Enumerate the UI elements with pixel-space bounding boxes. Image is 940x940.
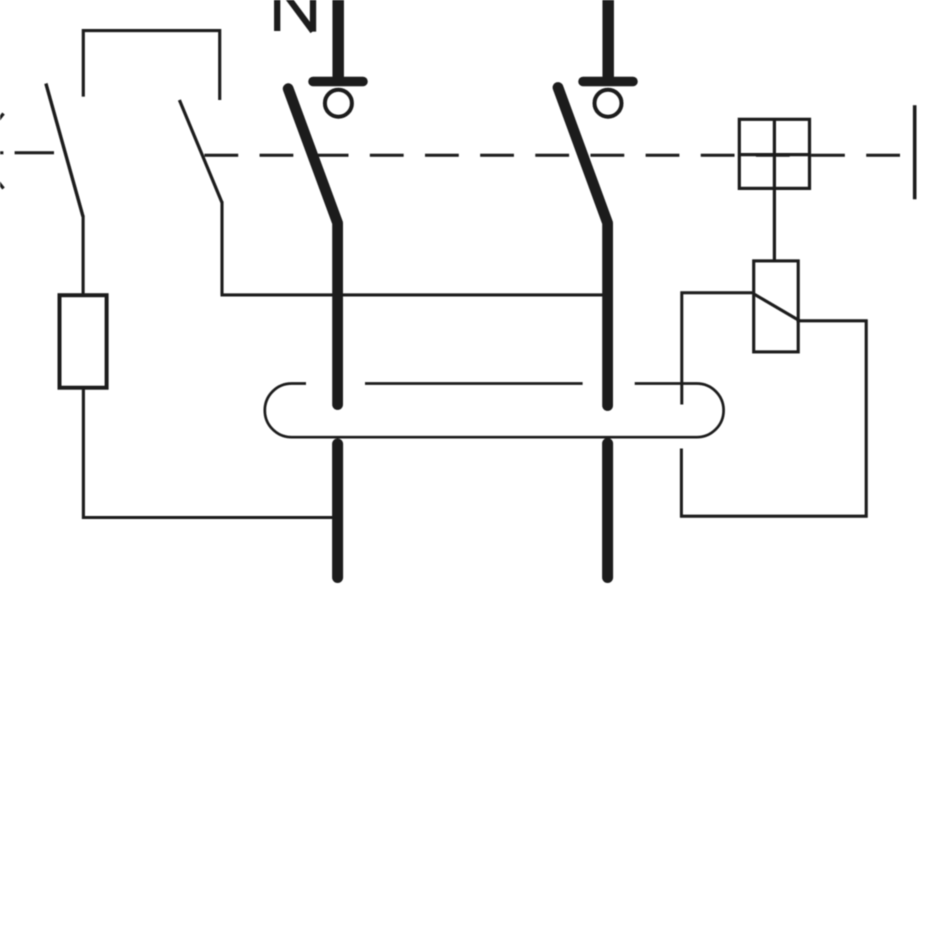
resistor (trip relay coil) xyxy=(60,295,107,388)
CT top edge middle segment xyxy=(365,382,583,385)
label N (neutral pole marking) xyxy=(277,0,313,32)
pole 2 conductor below CT xyxy=(602,444,613,578)
wire: resistor to pole 1 conductor xyxy=(83,388,334,518)
test button (square with cross) xyxy=(739,119,809,261)
moving contact blade + conductor, pole 1 xyxy=(288,89,337,405)
pole 1 conductor below CT xyxy=(332,444,343,578)
terminal lead, pole 1 (N) xyxy=(332,0,344,77)
wire: switch 1 to resistor xyxy=(82,216,85,296)
trip relay supply loop wire (top left) xyxy=(83,31,219,100)
plug-in contact circle, pole 2 xyxy=(595,90,622,117)
linkage arrow tick, lower left edge xyxy=(0,182,4,188)
auxiliary switch 2 blade xyxy=(179,100,222,202)
current transformer toroid (core outline) xyxy=(265,384,724,438)
test button stem / wire to test resistor xyxy=(773,119,776,261)
test wire: lower segment below CT xyxy=(680,449,683,518)
auxiliary switch 1 blade xyxy=(46,84,83,217)
wire: switch 2 to pole 2 conductor xyxy=(221,293,604,296)
test resistor (box with through diagonal) xyxy=(754,261,800,352)
linkage arrow tick, upper left edge xyxy=(0,114,4,120)
mechanical linkage dashed line, left stub xyxy=(0,151,54,154)
test circuit return wire (bottom and right) xyxy=(680,321,866,516)
plug-in contact circle, pole 1 xyxy=(325,90,352,117)
test wire: node on pole 2 side, upper segment crossing CT xyxy=(682,293,754,405)
terminal lead, pole 2 xyxy=(602,0,614,77)
wire: switch 2 down xyxy=(220,201,223,295)
mechanical linkage dashed line, main run xyxy=(204,154,913,157)
moving contact blade + conductor, pole 2 xyxy=(558,88,608,406)
fixed contact bar, pole 1 xyxy=(313,77,363,87)
linkage end bar (right) xyxy=(913,105,917,199)
fixed contact bar, pole 2 xyxy=(583,77,633,87)
